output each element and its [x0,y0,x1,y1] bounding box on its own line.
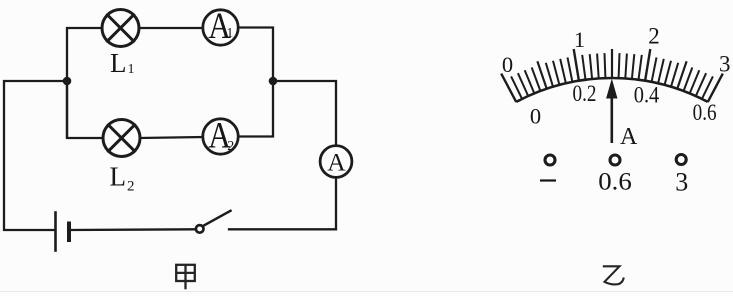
wire right node to ammeter A [273,81,336,146]
caption jia (甲) drawn as strokes [176,265,195,290]
ammeter dial arc [501,49,723,102]
faint scan line bottom [0,291,733,293]
node right junction [269,77,278,86]
wire top branch left: node to lamp L1 [67,28,102,137]
caption yi (乙) drawn as strokes [603,266,624,284]
battery cell: long plate [54,213,57,251]
svg-text:A: A [327,148,346,177]
node left junction [63,77,72,86]
wire A2 to right node [238,81,273,137]
svg-text:0.6: 0.6 [693,100,717,125]
battery cell: short plate [67,224,71,241]
terminal 0.6 [610,155,620,165]
ammeter A2 [203,119,238,154]
svg-text:1: 1 [574,27,585,52]
lamp L1 [102,10,139,47]
terminal negative [545,155,555,165]
svg-text:0.4: 0.4 [634,83,660,108]
wire left node to battery [4,81,67,230]
svg-text:0.2: 0.2 [573,81,597,106]
svg-text:A: A [620,124,638,150]
terminal 3 [676,155,686,165]
svg-text:L: L [110,162,127,192]
wire battery to switch [69,228,194,231]
lamp L2 [103,120,140,157]
wire ammeter A to switch [229,177,336,229]
svg-text:1: 1 [128,62,135,77]
wire L1 to ammeter A1 [139,27,203,29]
svg-text:3: 3 [719,52,731,77]
svg-text:2: 2 [127,179,135,195]
dial tick marks [501,74,516,102]
needle pointer arrow [606,79,617,144]
svg-text:0: 0 [530,104,541,129]
wire L2 to ammeter A2 [140,137,203,138]
ammeter A1 [203,10,238,45]
wire bottom branch left: node to lamp L2 [67,81,103,138]
svg-text:1: 1 [226,26,233,41]
svg-text:L: L [110,48,127,78]
svg-text:3: 3 [675,168,688,197]
switch S pivot [196,225,204,233]
svg-text:2: 2 [227,139,234,154]
svg-text:0: 0 [502,52,513,77]
terminal label minus [540,179,556,181]
switch S lever [204,211,231,226]
svg-text:0.6: 0.6 [598,169,632,196]
ammeter A [320,146,352,178]
wire A1 to right node [238,28,273,82]
svg-text:2: 2 [648,24,660,49]
